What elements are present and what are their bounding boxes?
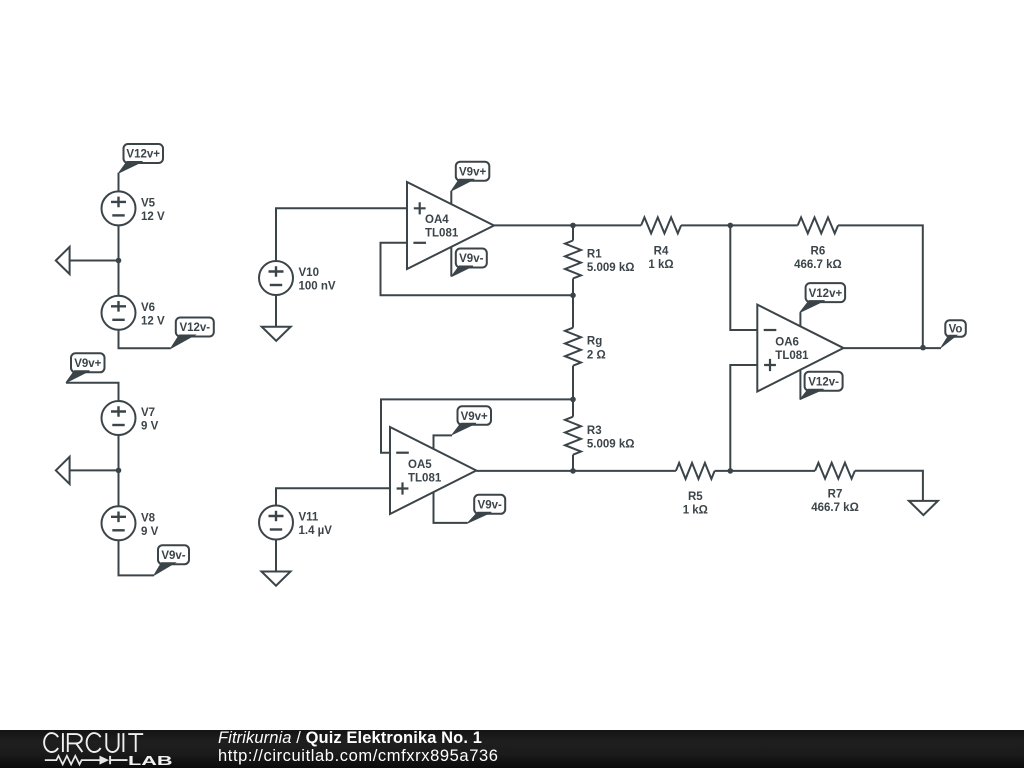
svg-text:9 V: 9 V [141,526,159,538]
svg-text:R4: R4 [654,245,669,257]
svg-text:R6: R6 [811,245,826,257]
svg-text:V6: V6 [141,302,155,314]
svg-text:1 kΩ: 1 kΩ [648,259,673,271]
svg-text:1.4 µV: 1.4 µV [299,525,333,537]
svg-text:V9v-: V9v- [478,500,502,512]
svg-text:12 V: 12 V [141,211,165,223]
svg-text:V9v-: V9v- [459,253,483,265]
svg-text:R7: R7 [828,489,843,501]
svg-text:5.009 kΩ: 5.009 kΩ [587,438,635,450]
svg-text:V9v+: V9v+ [74,358,101,370]
svg-text:V10: V10 [299,267,319,279]
svg-text:V7: V7 [141,407,155,419]
svg-text:2 Ω: 2 Ω [587,349,606,361]
svg-text:Rg: Rg [587,336,602,348]
svg-text:V9v+: V9v+ [461,411,488,423]
svg-text:OA6: OA6 [775,337,799,349]
svg-text:V9v+: V9v+ [459,166,486,178]
svg-text:466.7 kΩ: 466.7 kΩ [811,502,859,514]
svg-text:1 kΩ: 1 kΩ [683,504,708,516]
svg-text:LAB: LAB [128,752,173,767]
svg-text:466.7 kΩ: 466.7 kΩ [794,259,842,271]
svg-text:V5: V5 [141,197,156,209]
svg-text:9 V: 9 V [141,421,159,433]
svg-text:OA5: OA5 [408,459,432,471]
svg-text:V11: V11 [299,512,319,524]
svg-text:100 nV: 100 nV [299,281,336,293]
svg-text:5.009 kΩ: 5.009 kΩ [587,262,635,274]
svg-text:V12v+: V12v+ [126,149,160,161]
svg-text:R5: R5 [688,491,703,503]
svg-text:R1: R1 [587,249,602,261]
svg-text:Vo: Vo [949,324,963,336]
svg-text:V12v-: V12v- [179,322,210,334]
svg-text:TL081: TL081 [408,472,442,484]
svg-text:OA4: OA4 [425,214,449,226]
svg-text:V12v-: V12v- [808,376,839,388]
svg-text:V8: V8 [141,512,156,524]
svg-text:V9v-: V9v- [161,550,185,562]
svg-text:R3: R3 [587,425,602,437]
svg-text:V12v+: V12v+ [809,288,843,300]
svg-text:TL081: TL081 [425,227,459,239]
svg-text:TL081: TL081 [775,350,809,362]
svg-text:12 V: 12 V [141,315,165,327]
